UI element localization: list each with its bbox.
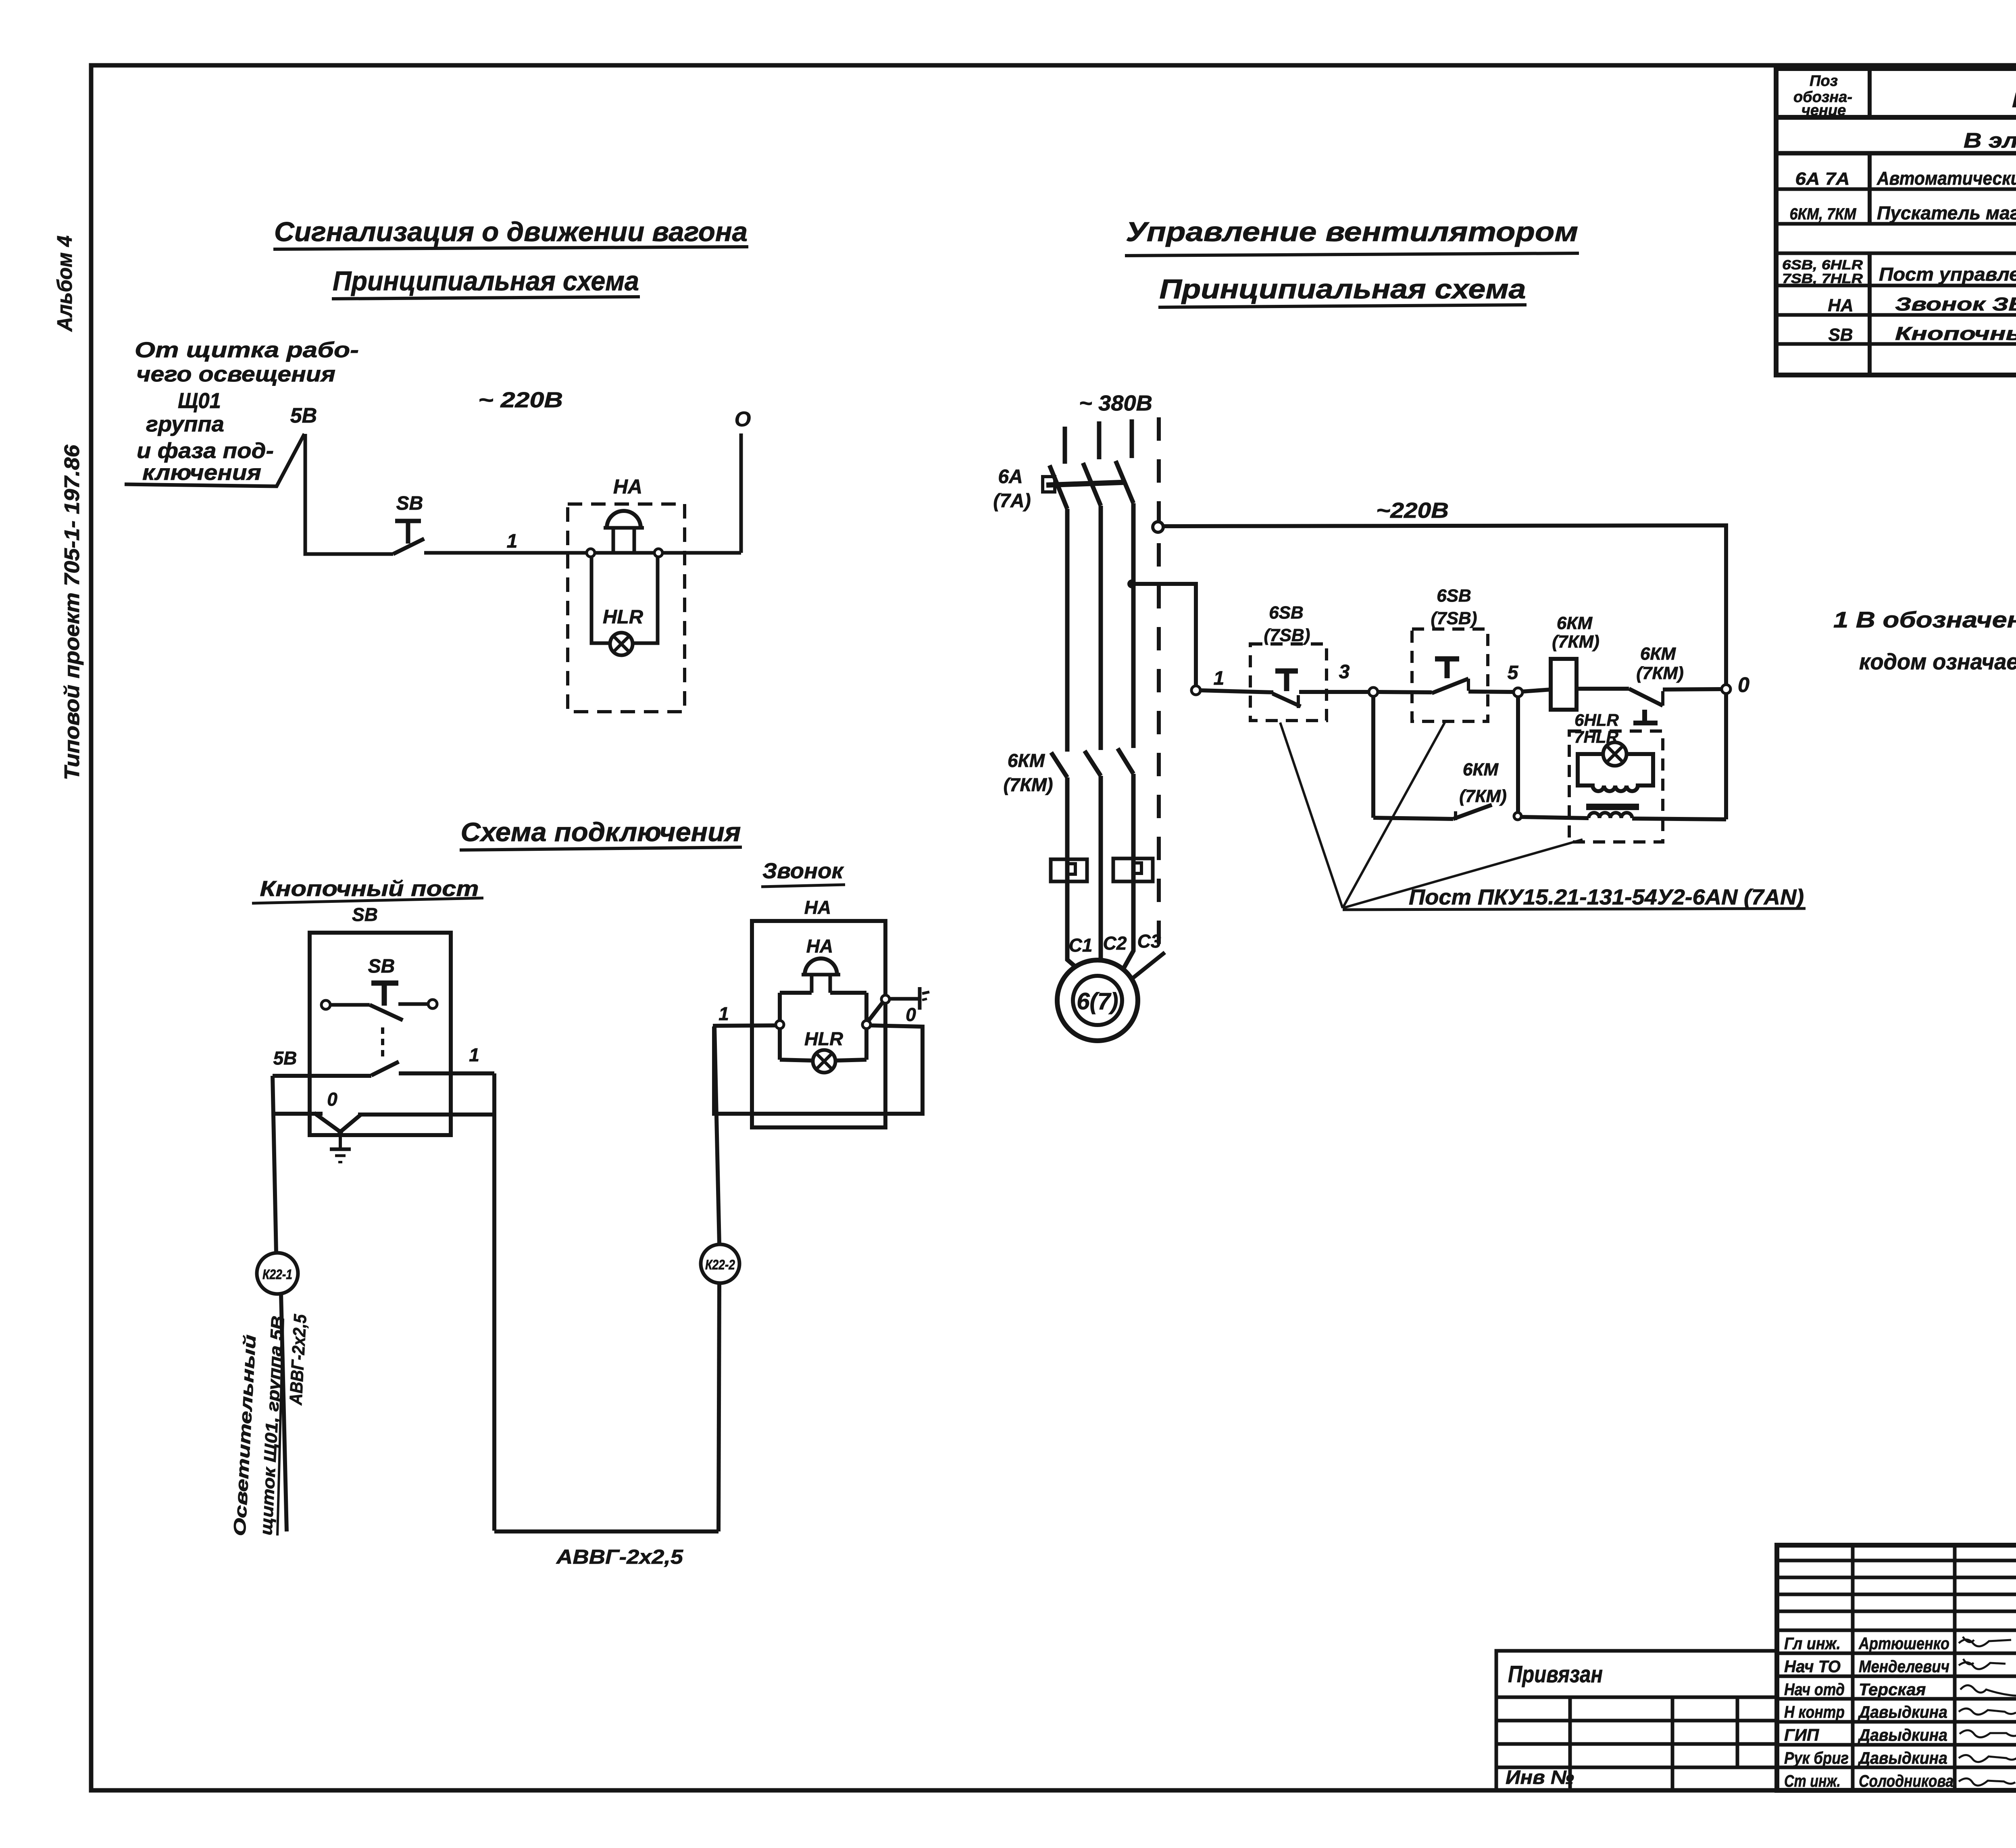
svg-text:(7КМ): (7КМ) bbox=[1636, 663, 1683, 683]
svg-text:1: 1 bbox=[719, 1003, 729, 1024]
mechanical link dashed bbox=[381, 1027, 384, 1057]
svg-text:1 В обозначении элементов с: 1 В обозначении элементов схемы цифра пе… bbox=[1833, 607, 2016, 632]
svg-text:С3: С3 bbox=[1137, 931, 1161, 952]
junction on neutral for 220V bbox=[1153, 522, 1163, 532]
svg-text:Принципиальная схема: Принципиальная схема bbox=[1160, 274, 1526, 304]
wire phase B to motor bbox=[1099, 776, 1103, 960]
svg-text:Схема подключения: Схема подключения bbox=[461, 817, 741, 847]
svg-text:С2: С2 bbox=[1103, 933, 1127, 954]
label Пост ПКУ15.21-131-54У2-6АН(7АН) bbox=[1343, 885, 1806, 910]
personnel rows bbox=[1784, 1634, 2016, 1790]
svg-text:6КМ: 6КМ bbox=[1008, 750, 1045, 771]
svg-text:НА: НА bbox=[806, 935, 833, 956]
node О bbox=[1722, 685, 1731, 694]
box edge terminal bbox=[881, 995, 889, 1003]
svg-text:1: 1 bbox=[1214, 668, 1225, 689]
svg-text:5В: 5В bbox=[273, 1048, 297, 1069]
lamp HLR (bell box) bbox=[813, 1050, 835, 1073]
svg-text:Ст инж.: Ст инж. bbox=[1784, 1771, 1841, 1790]
circuit breaker QF 6А(7А) bbox=[1043, 461, 1133, 509]
svg-text:Принципиальная схема: Принципиальная схема bbox=[333, 266, 639, 296]
svg-text:Пост ПКУ15.21-131-54У2-6АN (7А: Пост ПКУ15.21-131-54У2-6АN (7АN) bbox=[1409, 885, 1804, 909]
lamp unit dashed box bbox=[1569, 731, 1663, 842]
svg-text:SB: SB bbox=[368, 956, 395, 977]
svg-text:Наименование: Наименование bbox=[2012, 89, 2016, 112]
svg-text:6КМ, 7КМ: 6КМ, 7КМ bbox=[1790, 205, 1857, 223]
wire 5В down bbox=[273, 1076, 276, 1253]
svg-text:НА: НА bbox=[1828, 296, 1854, 315]
wire ~220В bbox=[1163, 525, 1726, 685]
junction node on bottom wire bbox=[1514, 813, 1521, 820]
svg-text:SB: SB bbox=[352, 904, 378, 925]
push-button SB (NO) bbox=[393, 521, 424, 554]
svg-text:группа: группа bbox=[146, 412, 224, 436]
svg-text:С1: С1 bbox=[1069, 935, 1093, 956]
bottom wire to О branch bbox=[1632, 819, 1726, 819]
svg-text:SB: SB bbox=[1828, 325, 1853, 345]
svg-text:0: 0 bbox=[906, 1004, 916, 1025]
svg-text:К22-1: К22-1 bbox=[262, 1267, 292, 1282]
start button actuator bbox=[1435, 656, 1459, 662]
title Управление вентилятором bbox=[1125, 217, 1579, 256]
svg-text:6КМ: 6КМ bbox=[1640, 644, 1677, 664]
svg-text:Сигнализация о движении ваг: Сигнализация о движении вагона bbox=[274, 217, 748, 247]
О branch vertical bbox=[1724, 694, 1728, 819]
wire О contact right bbox=[358, 1113, 494, 1117]
svg-text:Пост управления ПКУ15.21 131-5: Пост управления ПКУ15.21 131-54У2 bbox=[1879, 264, 2016, 285]
bottom wire to transformer bbox=[1521, 817, 1589, 818]
svg-text:Щ01: Щ01 bbox=[178, 389, 221, 413]
bell terminals bbox=[587, 549, 595, 557]
svg-text:6SB, 6HLR: 6SB, 6HLR bbox=[1782, 257, 1863, 272]
svg-text:Пускатель магнитный ПМЕ 232, ~: Пускатель магнитный ПМЕ 232, ~380В, 5А bbox=[1877, 202, 2016, 223]
label Кнопочный пост bbox=[252, 877, 483, 925]
title Принципиальная схема (middle) bbox=[1158, 274, 1527, 307]
svg-text:~ 380В: ~ 380В bbox=[1079, 391, 1152, 415]
bell НА dome bbox=[802, 958, 840, 993]
aux contact actuator bbox=[1642, 710, 1647, 723]
svg-text:В электропомещении: В электропомещении bbox=[1964, 129, 2016, 152]
pointer line A bbox=[1280, 723, 1343, 908]
wire node5-coil bbox=[1522, 690, 1551, 692]
rung start node bbox=[1191, 686, 1200, 695]
motor М 6(7) bbox=[1057, 960, 1138, 1041]
title Сигнализация о движении вагона bbox=[273, 217, 748, 249]
tap junction on phase C bbox=[1127, 579, 1136, 588]
О blade to box edge bbox=[868, 1000, 884, 1022]
start button 6SB(7SB) dashed box bbox=[1412, 629, 1488, 721]
wire 1 bbox=[424, 551, 741, 555]
svg-text:Нач ТО: Нач ТО bbox=[1784, 1657, 1841, 1676]
svg-text:АВВГ-2х2,5: АВВГ-2х2,5 bbox=[556, 1546, 684, 1568]
svg-text:НА: НА bbox=[804, 897, 831, 918]
signal lamp 6HLR bbox=[1603, 742, 1627, 766]
svg-text:(7КМ): (7КМ) bbox=[1004, 774, 1053, 795]
svg-text:(7SB): (7SB) bbox=[1431, 608, 1477, 628]
parallel loop wires bbox=[714, 1025, 923, 1114]
dashed neutral line bbox=[1157, 417, 1161, 952]
svg-text:ключения: ключения bbox=[142, 460, 261, 485]
ground symbol bbox=[330, 1132, 351, 1162]
svg-text:6А: 6А bbox=[998, 466, 1023, 488]
wire tap to control rung bbox=[1132, 584, 1196, 686]
svg-text:3: 3 bbox=[1339, 661, 1350, 683]
wire phase B below breaker bbox=[1099, 506, 1103, 750]
bell terminals bbox=[776, 1021, 784, 1029]
stop button 6SB(7SB) dashed box bbox=[1250, 644, 1327, 721]
wire to О bbox=[739, 433, 743, 553]
holding NO contact 6КМ(7КМ) bbox=[1453, 805, 1492, 819]
svg-text:Н контр: Н контр bbox=[1784, 1702, 1845, 1721]
wire С1 to motor bbox=[1067, 881, 1076, 967]
cable marker К22-2 bbox=[701, 1244, 739, 1283]
wire: 5В drop bbox=[305, 434, 393, 554]
svg-text:Типовой проект 705-1- 197.86: Типовой проект 705-1- 197.86 bbox=[60, 444, 84, 780]
wire 5В into box bbox=[273, 1074, 371, 1078]
svg-text:НА: НА bbox=[613, 475, 642, 498]
svg-text:ГИП: ГИП bbox=[1784, 1725, 1819, 1744]
svg-text:Альбом 4: Альбом 4 bbox=[53, 235, 77, 332]
attachment block Привязан bbox=[1496, 1651, 1777, 1790]
node 5 bbox=[1514, 688, 1522, 697]
svg-text:Кнопочный пост ПКЕ 222-1У2: Кнопочный пост ПКЕ 222-1У2 bbox=[1895, 323, 2016, 344]
wire 1 down from box bbox=[492, 1073, 496, 1531]
svg-text:6(7): 6(7) bbox=[1077, 988, 1118, 1015]
svg-text:От щитка рабо-: От щитка рабо- bbox=[135, 338, 359, 362]
note: От щитка рабочего освещения Щ01 группа и фаза подключения bbox=[135, 338, 359, 485]
svg-text:и фаза под-: и фаза под- bbox=[137, 439, 274, 463]
title block outline bbox=[1777, 1545, 2016, 1790]
svg-text:0: 0 bbox=[327, 1089, 337, 1110]
wire to О node bbox=[1663, 689, 1722, 690]
wire lamp branch right bbox=[633, 557, 658, 643]
wire 1 out of box bbox=[399, 1071, 494, 1075]
bell НА box bbox=[752, 921, 885, 1127]
stop button NC blade bbox=[1272, 694, 1301, 706]
svg-text:Артюшенко: Артюшенко bbox=[1858, 1634, 1949, 1653]
label Осветительный щиток Щ01 группа 5В bbox=[230, 1315, 287, 1537]
leader line to node 5В bbox=[125, 434, 304, 486]
SB NO contact bbox=[330, 1003, 370, 1007]
wire node1 bbox=[1200, 690, 1273, 692]
svg-text:~220В: ~220В bbox=[1376, 498, 1449, 523]
wire phase C to thermal relay bbox=[1131, 774, 1136, 881]
neutral slant into motor bbox=[1133, 952, 1165, 978]
lamp HLR bbox=[610, 633, 633, 655]
wire to node 3 bbox=[1299, 690, 1369, 694]
svg-text:Давыдкина: Давыдкина bbox=[1858, 1748, 1947, 1767]
button post SB box bbox=[310, 933, 451, 1135]
wire to ground (bell) bbox=[889, 997, 920, 1001]
wire phase C stub bbox=[1130, 419, 1134, 458]
svg-text:5: 5 bbox=[1508, 662, 1519, 683]
wire phase A below breaker bbox=[1065, 509, 1070, 752]
branch node3 down bbox=[1371, 696, 1375, 818]
bell HA dashed enclosure bbox=[568, 504, 685, 712]
svg-text:Звонок ЗВЛП220: Звонок ЗВЛП220 bbox=[1895, 294, 2016, 315]
wire to node 5 bbox=[1468, 692, 1514, 692]
pointer line B bbox=[1343, 723, 1445, 908]
svg-text:(7КМ): (7КМ) bbox=[1459, 786, 1506, 806]
pointer line C bbox=[1343, 840, 1583, 908]
note text bbox=[1833, 607, 2016, 674]
svg-text:Управление вентилятором: Управление вентилятором bbox=[1126, 217, 1578, 247]
svg-text:1: 1 bbox=[469, 1044, 479, 1065]
branch node5 down bbox=[1516, 697, 1520, 812]
svg-text:~ 220В: ~ 220В bbox=[478, 388, 563, 412]
transformer winding bbox=[1589, 813, 1632, 819]
svg-text:чего освещения: чего освещения bbox=[136, 362, 335, 386]
svg-text:Гл инж.: Гл инж. bbox=[1784, 1634, 1841, 1653]
svg-text:АВВГ-2х2,5: АВВГ-2х2,5 bbox=[286, 1314, 310, 1406]
svg-text:Солодникова: Солодникова bbox=[1859, 1771, 1954, 1790]
wire phase A stub bbox=[1063, 427, 1067, 464]
svg-text:6HLR: 6HLR bbox=[1574, 710, 1619, 729]
svg-text:О: О bbox=[735, 408, 751, 431]
wire phase A to thermal relay bbox=[1065, 777, 1070, 881]
contactor coil 6КМ(7КМ) bbox=[1551, 659, 1577, 710]
node 3 bbox=[1369, 688, 1378, 696]
svg-text:Инв №: Инв № bbox=[1506, 1767, 1574, 1788]
svg-text:Осветительный: Осветительный bbox=[230, 1334, 259, 1537]
start button NO blade bbox=[1432, 679, 1468, 693]
wire phase B stub bbox=[1097, 421, 1102, 459]
svg-text:Поз: Поз bbox=[1810, 73, 1838, 90]
table row Звонок bbox=[1828, 294, 2016, 315]
ground symbol (bell) bbox=[920, 987, 929, 1010]
cable marker К22-1 bbox=[257, 1253, 298, 1294]
bell body bbox=[780, 993, 866, 1060]
wire phase C below breaker bbox=[1131, 503, 1136, 748]
svg-text:Звонок: Звонок bbox=[762, 859, 844, 883]
svg-text:К22-2: К22-2 bbox=[705, 1257, 735, 1273]
table row 6А 7А bbox=[1795, 168, 2016, 189]
thermal relay КК2 bbox=[1113, 858, 1153, 881]
svg-text:Нач отд: Нач отд bbox=[1784, 1680, 1845, 1699]
svg-text:SB: SB bbox=[396, 493, 423, 514]
svg-text:1: 1 bbox=[507, 531, 518, 552]
wire lamp branch left bbox=[591, 557, 610, 643]
wire below К22-1 bbox=[281, 1294, 287, 1531]
svg-text:Давыдкина: Давыдкина bbox=[1858, 1725, 1947, 1744]
table row Пост управления bbox=[1782, 257, 2016, 286]
thermal relay КК1 bbox=[1051, 859, 1087, 881]
holding circuit bottom wire left bbox=[1373, 818, 1453, 819]
svg-text:6А 7А: 6А 7А bbox=[1795, 169, 1850, 189]
svg-text:Кнопочный пост: Кнопочный пост bbox=[260, 877, 479, 901]
lamp body (bell block) bbox=[1578, 754, 1653, 791]
svg-text:HLR: HLR bbox=[804, 1028, 843, 1049]
table row Кнопочный пост bbox=[1828, 323, 2016, 345]
table header Поз обозначение bbox=[1793, 73, 1852, 119]
second contact blade bbox=[371, 1062, 399, 1075]
cable run bottom bbox=[494, 1529, 719, 1533]
svg-text:(7А): (7А) bbox=[993, 490, 1031, 512]
svg-text:Привязан: Привязан bbox=[1508, 1661, 1603, 1688]
wire О contact left bbox=[273, 1112, 323, 1116]
svg-text:(7SB): (7SB) bbox=[1264, 625, 1310, 645]
title Схема подключения bbox=[460, 817, 742, 850]
svg-text:HLR: HLR bbox=[603, 606, 643, 628]
stop button actuator bbox=[1275, 669, 1298, 674]
table row 6КМ 7КМ bbox=[1790, 202, 2016, 223]
svg-text:чение: чение bbox=[1801, 102, 1846, 119]
svg-text:Автоматический выключатель АП5: Автоматический выключатель АП50Б-3МТУ2 2… bbox=[1876, 168, 2016, 189]
svg-text:Рук бриг: Рук бриг bbox=[1784, 1748, 1849, 1767]
earth junction bbox=[337, 1129, 343, 1135]
svg-text:(7КМ): (7КМ) bbox=[1552, 632, 1599, 652]
wire node3-start bbox=[1378, 692, 1432, 692]
title Принципиальная схема (left) bbox=[332, 266, 640, 299]
wire 1 into bell bbox=[713, 1025, 776, 1026]
aux NC contact 6КМ(7КМ) bbox=[1629, 689, 1663, 706]
wire С3 to motor bbox=[1124, 881, 1133, 968]
svg-text:0: 0 bbox=[1738, 673, 1749, 697]
svg-text:Терская: Терская bbox=[1859, 1680, 1926, 1699]
wire up to К22-2 bbox=[719, 1283, 719, 1531]
parts table bbox=[1776, 69, 2016, 375]
svg-text:7SB, 7HLR: 7SB, 7HLR bbox=[1782, 271, 1863, 286]
svg-text:6SB: 6SB bbox=[1269, 603, 1304, 623]
svg-text:Менделевич: Менделевич bbox=[1859, 1657, 1949, 1676]
SB NO contact terminals bbox=[321, 1000, 330, 1009]
svg-text:5В: 5В bbox=[290, 404, 317, 427]
signatures bbox=[1959, 1637, 2016, 1785]
label Звонок bbox=[761, 859, 845, 918]
svg-text:6SB: 6SB bbox=[1437, 586, 1471, 606]
contactor КМ main contacts bbox=[1051, 748, 1133, 777]
contact О earth legs bbox=[314, 1113, 360, 1132]
svg-text:6КМ: 6КМ bbox=[1463, 760, 1499, 779]
svg-text:6КМ: 6КМ bbox=[1557, 613, 1593, 633]
wire К22-2 up to bell bbox=[714, 1026, 719, 1244]
svg-text:Давыдкина: Давыдкина bbox=[1858, 1702, 1947, 1721]
bell HA dome bbox=[604, 511, 644, 553]
svg-text:кодом означает номер приво: кодом означает номер привода по плану. bbox=[1859, 649, 2016, 674]
SB actuator bbox=[371, 981, 398, 986]
transformer core bar bbox=[1586, 804, 1639, 810]
wire coil-contact bbox=[1577, 687, 1629, 691]
